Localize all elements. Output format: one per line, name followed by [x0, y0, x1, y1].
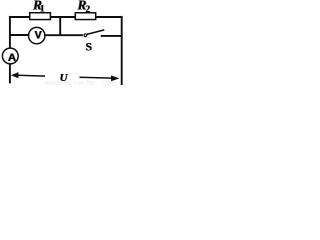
svg-text:A: A: [8, 52, 16, 64]
voltage U dimension arrowhead left: [11, 72, 19, 78]
svg-text:V: V: [35, 29, 43, 41]
svg-text:modified con lfd: modified con lfd: [45, 80, 94, 87]
wire left wall lower: [9, 64, 11, 83]
svg-text:1: 1: [40, 4, 45, 15]
wire right wall: [121, 16, 123, 85]
voltage U dimension arrowhead right: [111, 75, 119, 81]
wire middle branch right (switch to wall): [101, 35, 122, 37]
wire R2 to top-right corner: [96, 16, 122, 18]
wire middle branch left (wall to voltmeter): [10, 34, 28, 36]
svg-text:com: com: [103, 80, 115, 87]
ammeter A1 circle: [2, 48, 18, 64]
switch S hinge circle: [84, 34, 87, 37]
voltmeter V1 circle: [29, 27, 45, 43]
svg-text:2: 2: [85, 4, 90, 14]
resistor R1: [30, 13, 51, 20]
resistor R2: [75, 13, 95, 20]
voltage U dimension line right segment: [80, 76, 112, 79]
wire between R1 and R2: [51, 16, 75, 18]
wire middle branch center (voltmeter to switch): [45, 34, 83, 36]
wire left wall upper: [9, 16, 11, 48]
voltage U dimension line left segment: [18, 74, 45, 77]
wire top-left: corner to R1: [10, 16, 29, 17]
svg-text:S: S: [86, 41, 92, 53]
switch S blade: [87, 30, 105, 35]
wire vertical stub node between R1,R2 down to middle branch: [59, 16, 61, 35]
